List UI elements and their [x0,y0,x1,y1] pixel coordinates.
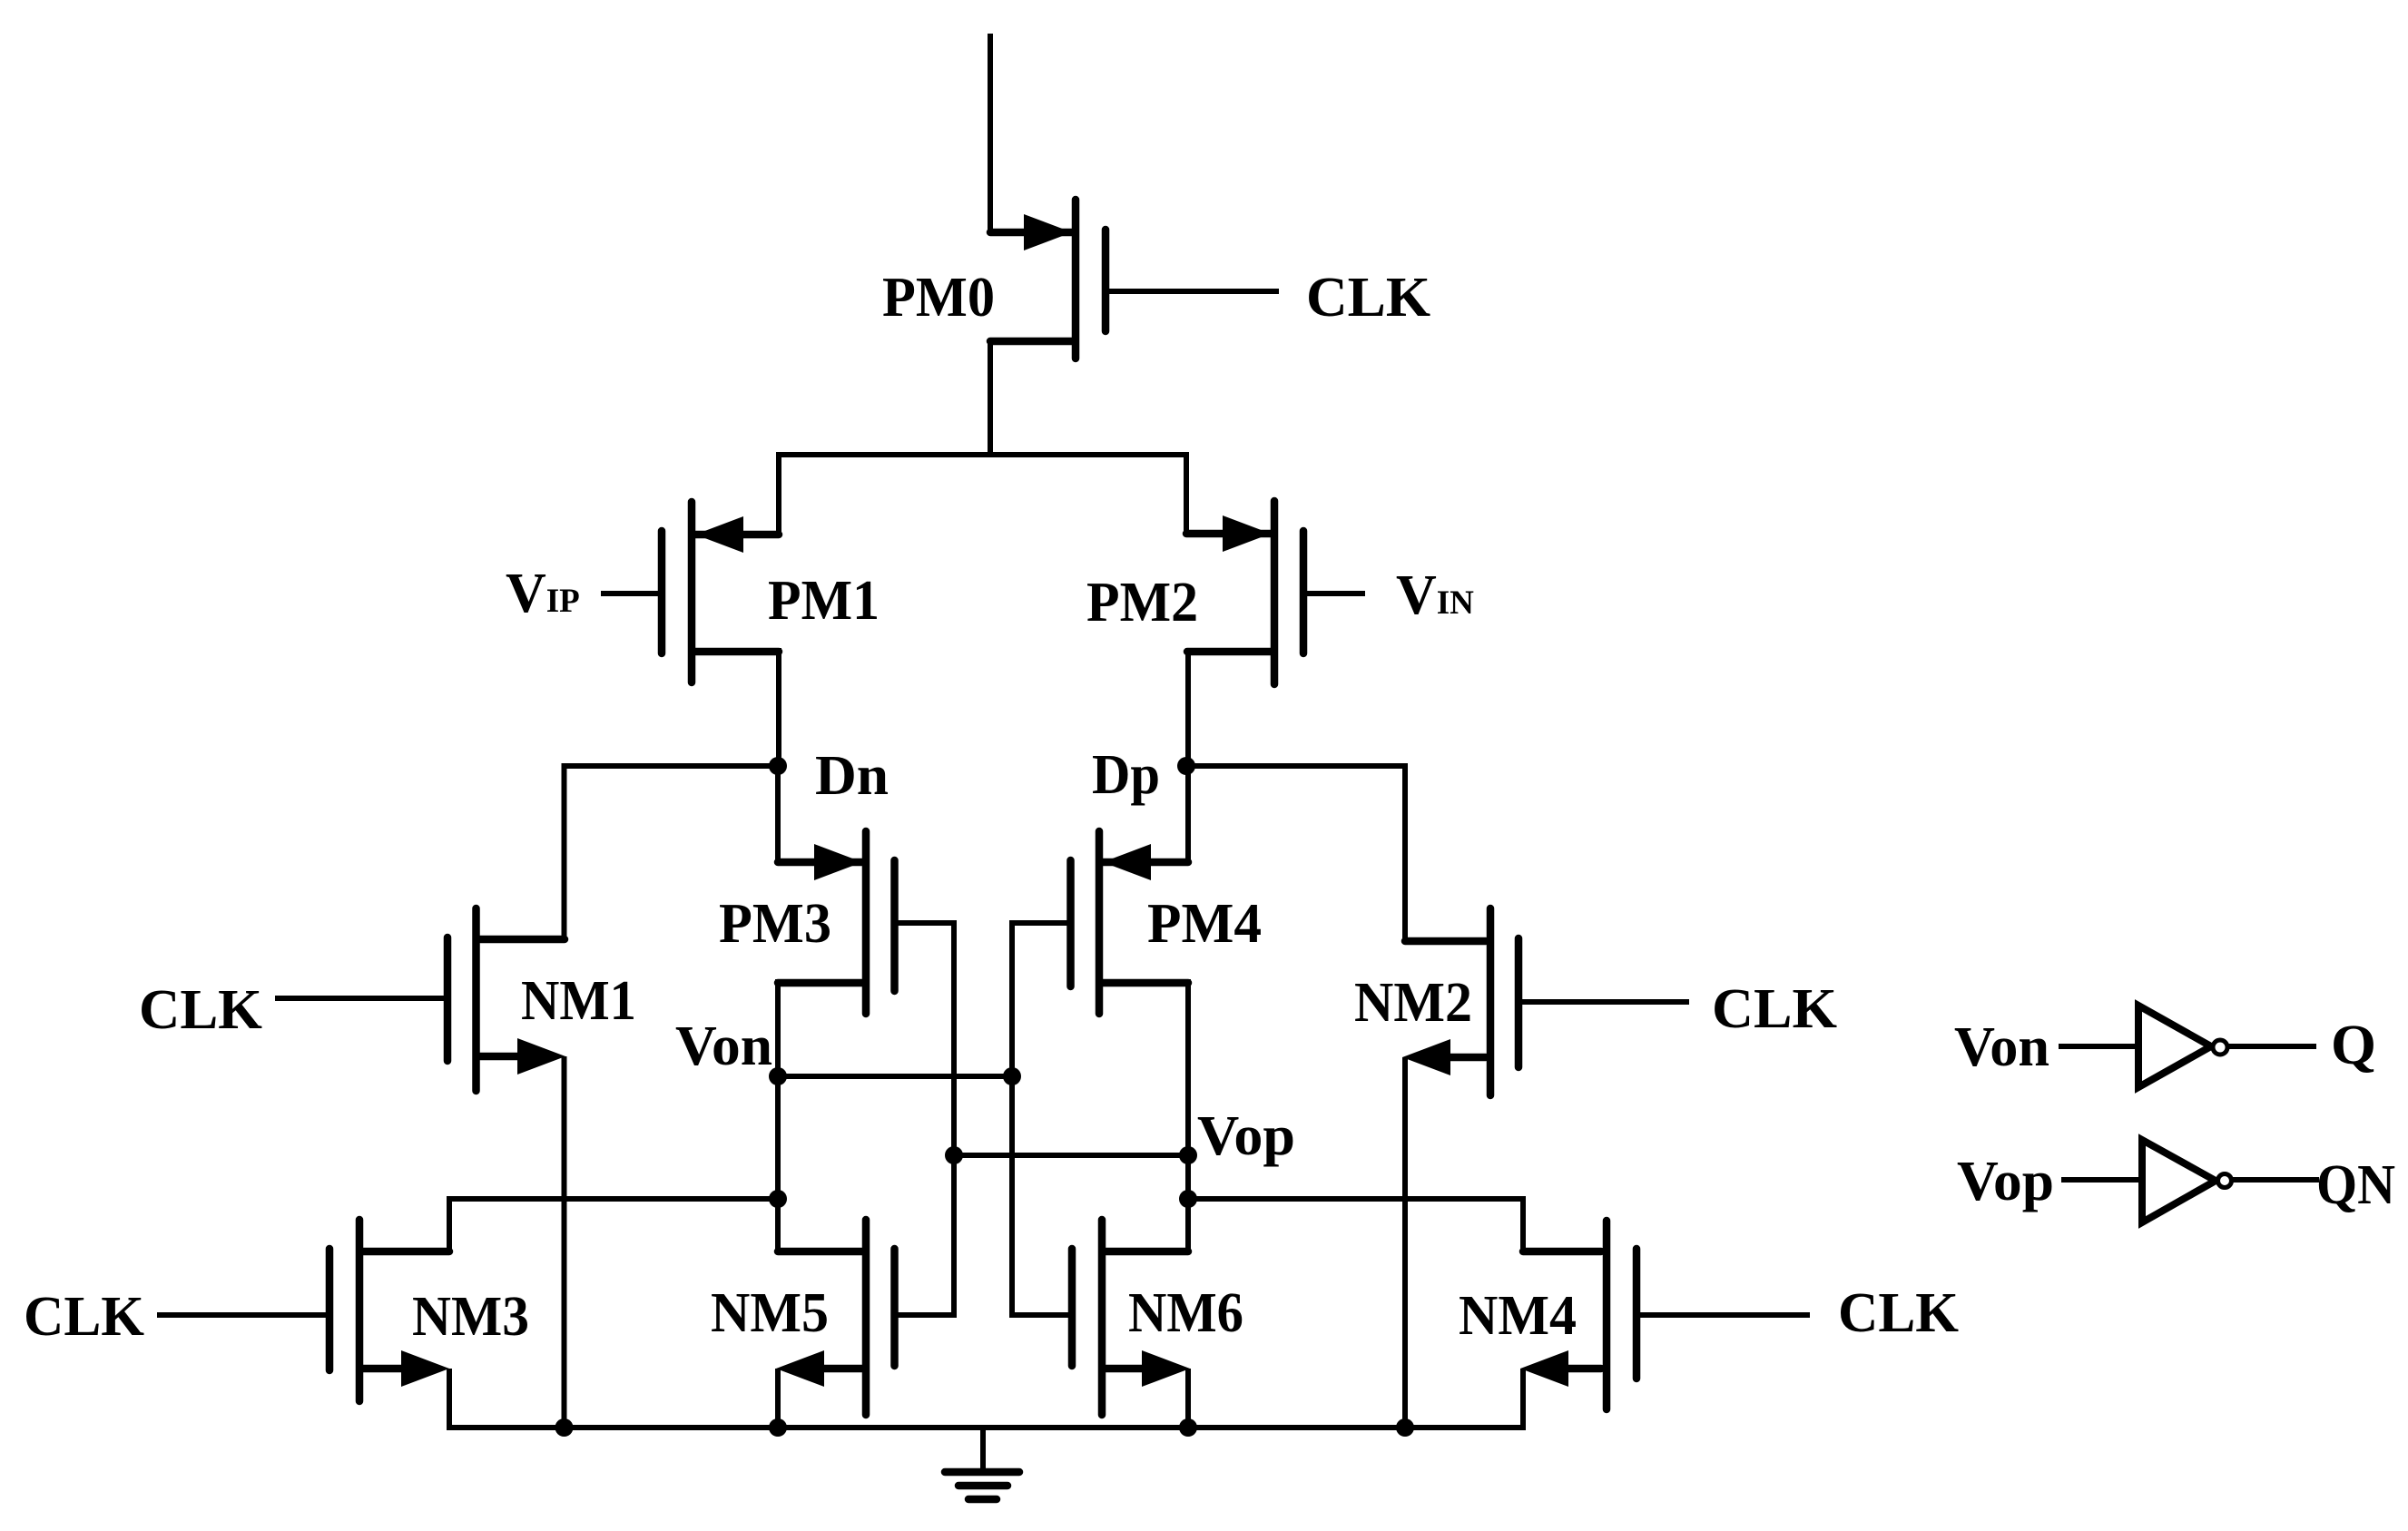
transistor NM2 (reset switch, CLK) [1487,908,1495,1095]
wire Dp down to PM4 source [1185,763,1191,865]
node Vop junction dot on PM3 gate column [945,1146,963,1164]
junction dot NM2 source on ground rail [1396,1418,1414,1437]
transistor NM6 (latch NMOS) [1098,1220,1106,1415]
svg-text:PM2: PM2 [1086,572,1198,633]
svg-text:QN: QN [2316,1154,2395,1216]
wire inverter 1 output [2228,1044,2316,1049]
wire NM3 drain to Von column [449,1199,778,1254]
inverter U1 (Von to Q) [2138,1006,2211,1087]
svg-text:Dp: Dp [1092,744,1160,806]
junction dot NM6 source on ground rail [1179,1418,1197,1437]
transistor NM1 (reset switch, CLK) [472,908,480,1091]
wire PM1 drain to node Dn [776,648,781,769]
svg-text:Von: Von [1954,1016,2049,1078]
ground symbol [980,1428,986,1472]
svg-text:Vop: Vop [1197,1105,1295,1167]
wire NM4 source to ground rail [1520,1369,1526,1430]
junction dot NM1 source on ground rail [555,1418,574,1437]
wire PM3 drain / Von column [775,979,781,1254]
wire NM2 gate lead [1522,999,1689,1005]
transistor NM4 (reset switch, CLK) [1603,1221,1611,1409]
wire NM4 drain to Vop column [1188,1199,1523,1254]
transistor NM3 (reset switch, CLK) [356,1220,364,1401]
wire PM4 gate to mid column [1009,920,1067,926]
wire Dp to NM2 drain [1186,766,1405,944]
wire inverter 2 input [2061,1177,2143,1183]
wire NM2 source to ground rail [1402,1057,1408,1430]
wire VDD lead to PM0 source [988,34,993,235]
node Von junction dot left [769,1067,787,1085]
transistor NM5 (latch NMOS) [862,1220,870,1415]
inverter U2 (Vop to QN) [2142,1140,2216,1222]
wire PM0 gate to CLK [1109,289,1279,294]
svg-text:Dn: Dn [815,745,889,807]
wire PM4 gate column down to NM6 gate (Von net) [1009,920,1015,1318]
wire Dn down to PM3 source [775,763,781,865]
transistor PM2 (input PMOS, VIN) [1271,501,1279,684]
transistor PM1 (input PMOS, VIP) [688,502,696,682]
wire Dn to NM1 drain [565,766,779,942]
wire PM0 drain to tail rail [988,339,993,457]
wire NM5 source to ground rail [775,1369,781,1430]
svg-text:NM6: NM6 [1128,1282,1243,1344]
svg-text:CLK: CLK [1306,267,1430,329]
wire inverter 2 output [2231,1177,2319,1183]
svg-text:CLK: CLK [139,979,262,1041]
svg-text:CLK: CLK [24,1286,144,1348]
wire NM6 gate to Von column [1009,1312,1068,1318]
svg-text:Vop: Vop [1957,1151,2054,1212]
junction dot Vop column / NM4 drain [1179,1190,1197,1208]
transistor PM0 (PMOS tail switch) [1072,200,1080,358]
wire NM5 gate to Vop column [898,1312,957,1318]
svg-text:NM4: NM4 [1459,1285,1577,1347]
junction dot Von column / NM3 drain [769,1190,787,1208]
wire PM4 drain / Vop column [1185,979,1191,1254]
svg-text:PM3: PM3 [719,893,831,955]
wire PM2 gate lead [1307,591,1365,596]
wire NM1 source to ground rail [562,1056,567,1430]
node Dn junction dot [769,757,787,775]
wire ground rail [449,1425,1523,1430]
wire NM4 gate lead [1640,1312,1810,1318]
wire node Von cross-couple [778,1074,1012,1079]
transistor PM4 (cross-coupled PMOS) [1096,831,1104,1014]
wire inverter 1 input [2059,1044,2139,1049]
node Von junction dot on PM4 gate column [1003,1067,1021,1085]
wire tail rail [779,455,1186,537]
svg-text:CLK: CLK [1712,978,1837,1040]
svg-text:CLK: CLK [1838,1282,1959,1344]
wire PM3 gate column down to NM5 gate (Vop net) [951,920,957,1318]
node Vop junction dot right [1179,1146,1197,1164]
wire NM6 source to ground rail [1185,1369,1191,1430]
svg-text:PM0: PM0 [882,267,995,329]
wire PM2 drain to node Dp [1185,648,1191,769]
svg-text:Von: Von [675,1016,772,1077]
svg-text:NM1: NM1 [521,970,636,1032]
svg-text:Q: Q [2331,1015,2376,1076]
wire NM1 gate lead [275,996,444,1001]
svg-text:PM4: PM4 [1147,893,1262,955]
transistor PM3 (cross-coupled PMOS) [862,831,870,1014]
wire node Vop cross-couple [954,1153,1188,1158]
wire PM1 gate lead [601,591,659,596]
wire PM3 gate to mid column [898,920,957,926]
junction dot NM5 source on ground rail [769,1418,787,1437]
svg-text:PM1: PM1 [768,570,880,632]
wire NM3 gate lead [157,1312,326,1318]
svg-text:NM5: NM5 [711,1282,829,1344]
svg-text:NM3: NM3 [412,1286,529,1348]
wire NM3 source to ground rail [447,1369,452,1430]
node Dp junction dot [1177,757,1195,775]
svg-text:NM2: NM2 [1354,972,1472,1034]
